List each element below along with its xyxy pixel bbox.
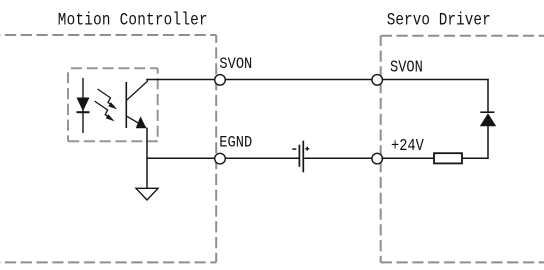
svg-text:SVON: SVON xyxy=(390,59,423,76)
battery BT1 negative plate xyxy=(298,145,300,167)
wire +24V to resistor xyxy=(381,157,434,159)
wire SVON right to corner xyxy=(382,79,489,81)
dashed box Motion Controller xyxy=(0,35,216,262)
wire EGND to battery xyxy=(225,157,299,159)
svg-text:EGND: EGND xyxy=(219,135,252,152)
wire SVON to SVON xyxy=(226,79,373,81)
terminal EGND xyxy=(215,153,226,164)
light arrow 1 (optocoupler) xyxy=(98,89,114,107)
dashed box Servo Driver xyxy=(381,36,544,263)
optocoupler U1 package (inner dashed box) xyxy=(68,68,158,141)
wire diode anode to resistor corner xyxy=(462,126,488,158)
wire corner down to diode cathode xyxy=(487,79,489,113)
battery minus sign xyxy=(292,148,296,150)
svg-text:SVON: SVON xyxy=(219,57,252,74)
wire emitter node to EGND terminal xyxy=(147,157,216,159)
phototransistor Q1 base bar xyxy=(125,82,127,128)
battery BT1 positive plate xyxy=(302,141,304,173)
svg-text:+24V: +24V xyxy=(391,138,424,155)
wire collector to SVON terminal xyxy=(146,79,215,81)
resistor R1 xyxy=(434,153,462,163)
LED D1 (inside optocoupler) xyxy=(77,78,90,133)
wire battery to +24V xyxy=(304,157,372,159)
terminal SVON (motion controller side) xyxy=(215,75,226,86)
battery plus sign xyxy=(305,147,309,151)
phototransistor Q1 emitter xyxy=(126,116,146,128)
terminal +24V xyxy=(372,153,383,164)
terminal SVON (servo driver side) xyxy=(372,75,383,86)
ground xyxy=(136,188,158,200)
svg-text:Servo Driver: Servo Driver xyxy=(387,10,491,30)
diode D2 cathode bar xyxy=(480,111,494,113)
light arrow 2 (optocoupler) xyxy=(95,101,112,119)
phototransistor Q1 collector xyxy=(126,80,147,101)
wire emitter down to ground xyxy=(146,128,148,189)
svg-text:Motion Controller: Motion Controller xyxy=(58,10,208,30)
diode D2 xyxy=(480,113,496,126)
